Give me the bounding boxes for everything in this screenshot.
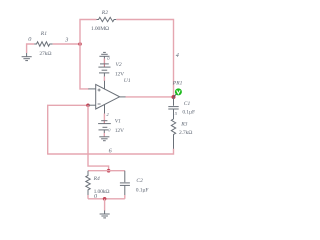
svg-text:0.1µF: 0.1µF <box>182 109 195 115</box>
wire left loop up to inverting input <box>48 105 88 154</box>
junction dot output node <box>172 95 176 99</box>
lead into + input <box>88 88 95 90</box>
ground symbol (top, inverted, above V2) <box>99 52 109 58</box>
R4 red lead bottom <box>87 195 89 199</box>
junction dot bottom ground node <box>103 197 107 201</box>
wire ground to R1 <box>27 44 35 53</box>
svg-text:12V: 12V <box>115 72 124 78</box>
svg-text:C2: C2 <box>136 178 143 184</box>
svg-text:R4: R4 <box>93 176 100 182</box>
svg-text:12V: 12V <box>115 128 124 134</box>
junction dot node 3 <box>78 42 82 46</box>
svg-text:2: 2 <box>106 112 109 117</box>
svg-text:27kΩ: 27kΩ <box>39 51 51 57</box>
battery V1 inner stem <box>103 121 105 124</box>
resistor R3 <box>171 119 175 149</box>
ground symbol (bottom) <box>100 210 110 218</box>
battery V2 inner stem <box>103 64 105 67</box>
probe PR1 tail <box>174 94 177 97</box>
op-amp U1 triangle <box>96 84 120 109</box>
wire bottom rail R4 to C2 <box>88 198 125 200</box>
probe PR1 arrow glyph <box>177 90 180 93</box>
wire V- pin to battery V1 <box>103 114 105 121</box>
op-amp plus marker <box>98 89 101 92</box>
wire node 3 up and right to R2 <box>80 20 97 45</box>
wire output to probe junction <box>126 96 174 98</box>
svg-text:PR1: PR1 <box>172 80 183 86</box>
resistor R2 <box>97 17 117 21</box>
svg-text:0.1µF: 0.1µF <box>136 187 149 193</box>
lead into - input <box>88 104 96 106</box>
svg-text:3: 3 <box>64 37 68 44</box>
wire R4-C2 top rail <box>88 170 125 172</box>
junction dot on R4-C2 top rail <box>107 169 111 173</box>
op-amp minus marker <box>98 103 101 105</box>
svg-text:R1: R1 <box>40 31 47 37</box>
svg-text:U1: U1 <box>124 78 131 84</box>
battery V1 <box>98 121 111 134</box>
svg-text:0: 0 <box>107 56 110 61</box>
wire R3 to bottom rail (net 6) <box>48 149 174 154</box>
op-amp V+ pin stub <box>104 81 106 89</box>
resistor R4 <box>86 171 90 195</box>
wire top ground to battery V2 <box>103 59 105 64</box>
svg-text:C1: C1 <box>184 101 191 107</box>
ground symbol (below V1) <box>99 137 109 141</box>
capacitor C1 <box>168 97 178 119</box>
svg-text:V1: V1 <box>115 119 121 125</box>
svg-text:0: 0 <box>108 127 111 132</box>
svg-text:1.00MΩ: 1.00MΩ <box>91 26 109 32</box>
ground symbol (left, under node 0) <box>22 53 32 61</box>
wire R2 to right rail down to output node (net 4) <box>116 20 173 96</box>
probe PR1 green circle <box>175 88 182 95</box>
junction dot inverting node <box>86 104 90 108</box>
op-amp V- pin stub <box>104 105 106 114</box>
wire R1 to node 3 junction <box>53 43 80 45</box>
C2 red lead bottom <box>124 195 126 199</box>
wire V1 to ground <box>103 133 105 137</box>
op-amp output lead <box>120 96 126 98</box>
capacitor C2 <box>120 171 130 195</box>
svg-text:0: 0 <box>28 36 32 43</box>
svg-text:4: 4 <box>176 52 179 59</box>
battery V2 <box>98 64 110 77</box>
wire node 3 down to non-inverting input <box>80 44 89 89</box>
svg-text:R3: R3 <box>180 121 187 127</box>
svg-text:5: 5 <box>175 111 178 116</box>
wire down to bottom ground <box>104 199 106 211</box>
svg-text:V2: V2 <box>116 62 122 68</box>
svg-text:2.7kΩ: 2.7kΩ <box>179 130 192 136</box>
wire inverting node down to R4/C2 rail <box>88 105 109 170</box>
resistor R1 <box>34 42 53 46</box>
svg-text:R2: R2 <box>101 10 108 16</box>
wire V2 to op-amp V+ pin <box>103 76 105 81</box>
